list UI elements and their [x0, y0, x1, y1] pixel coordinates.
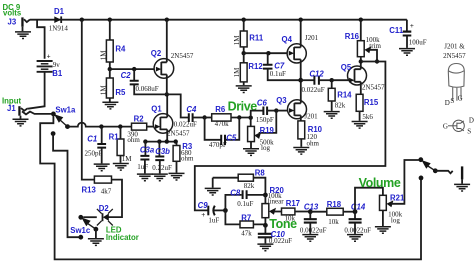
svg-text:R14: R14 [337, 91, 352, 100]
capacitor C7 [263, 53, 301, 80]
capacitor C11 [403, 32, 412, 48]
svg-text:1N914: 1N914 [49, 24, 69, 32]
svg-text:10k: 10k [285, 215, 296, 223]
ground C13 [302, 235, 318, 242]
ground J1 [13, 119, 29, 126]
battery B1 [37, 61, 53, 72]
resistor R17 [282, 208, 311, 215]
ground C3b [152, 174, 168, 181]
node R1 junction [118, 124, 122, 128]
ground C11 [399, 49, 415, 56]
svg-text:470k: 470k [215, 120, 230, 128]
svg-text:1M: 1M [233, 67, 241, 78]
resistor R3 [173, 146, 180, 173]
svg-text:C3a: C3a [140, 145, 155, 154]
svg-text:R17: R17 [286, 199, 300, 208]
svg-text:0.022uF: 0.022uF [269, 237, 292, 245]
resistor R12 [240, 53, 247, 85]
wire C9 node to R7 [225, 210, 240, 224]
capacitor C13 [304, 212, 317, 234]
svg-text:D1: D1 [54, 7, 65, 16]
svg-text:47k: 47k [241, 230, 252, 238]
svg-text:1uF: 1uF [137, 163, 148, 171]
wire Sw1b to output jack [435, 171, 452, 174]
svg-text:D: D [445, 99, 450, 107]
wire battery feed from rail [37, 20, 45, 59]
svg-text:Q2: Q2 [151, 49, 162, 58]
wire Q1 drain to C4 [167, 94, 189, 117]
capacitor C3b [155, 142, 164, 174]
svg-text:C14: C14 [351, 203, 366, 212]
svg-text:R18: R18 [327, 200, 342, 209]
node C6 Q3gate junction [274, 108, 278, 112]
ground R14 [324, 112, 340, 119]
capacitor C6 [251, 107, 277, 118]
node Q1 gate / C1 junction [99, 124, 103, 128]
trimpot R16 100k [357, 20, 377, 62]
node Q4 source / C12 junction [298, 78, 303, 83]
svg-text:+: + [47, 52, 51, 60]
node C4 R6 junction [202, 115, 206, 119]
svg-text:log: log [391, 216, 400, 224]
capacitor C14 [349, 212, 362, 234]
node C2 junction [132, 67, 136, 71]
svg-text:1uF: 1uF [208, 217, 219, 225]
wire battery minus to input jack [28, 72, 45, 109]
transistor Q5 2N5457 [348, 62, 367, 95]
svg-text:470pF: 470pF [209, 141, 227, 149]
switch Sw1c [78, 215, 98, 238]
svg-text:+: + [410, 22, 414, 30]
svg-text:+: + [201, 211, 205, 219]
node R7 R20 C10 junction [263, 223, 268, 228]
svg-text:5k6: 5k6 [362, 113, 373, 121]
svg-text:R1: R1 [109, 132, 120, 141]
capacitor C1 [97, 127, 106, 164]
LED D2 [83, 209, 113, 226]
svg-text:C9: C9 [198, 201, 209, 210]
svg-text:R15: R15 [364, 98, 379, 107]
wire R16 wiper to tone stack feed [195, 62, 386, 211]
wire R2 to Q1 gate [147, 126, 155, 128]
svg-text:0.022uF: 0.022uF [302, 86, 325, 94]
ground C3a [137, 174, 153, 181]
capacitor C2 [130, 69, 167, 94]
svg-text:R16: R16 [345, 32, 360, 41]
node C14 junction [353, 209, 358, 214]
svg-text:R5: R5 [115, 88, 126, 97]
svg-text:C4: C4 [186, 105, 197, 114]
node Drive pot top junction [249, 116, 253, 120]
resistor R18 [310, 208, 355, 215]
svg-text:J1: J1 [7, 104, 16, 113]
resistor R11 [240, 20, 247, 54]
svg-text:R12: R12 [248, 62, 263, 71]
resistor R5 [106, 69, 113, 102]
ground R10 [293, 148, 309, 155]
pinout symbol JFET [448, 120, 464, 131]
svg-text:J201: J201 [305, 34, 319, 42]
wire LED feed from rail [82, 20, 95, 180]
node rail junction dots [80, 18, 363, 22]
wire Q5 gate [332, 79, 350, 81]
node R16 bottom / Q5 drain [359, 59, 363, 63]
wire C9 node to C8 [225, 195, 241, 211]
svg-text:250pF: 250pF [85, 150, 103, 158]
svg-text:R13: R13 [82, 185, 97, 194]
ground R5 [102, 102, 118, 109]
wire +9V top rail [30, 19, 407, 21]
svg-text:1M: 1M [233, 35, 241, 46]
jack J1 input [18, 106, 51, 118]
svg-text:2N5457: 2N5457 [167, 130, 190, 138]
svg-text:J201 &: J201 & [444, 43, 465, 51]
svg-text:G: G [458, 95, 463, 103]
node C12 Q5gate junction [330, 78, 334, 82]
diode D1 [54, 16, 61, 23]
svg-text:linear: linear [268, 197, 285, 205]
ground R8 [205, 188, 221, 195]
wire Q1 source bus [145, 142, 176, 146]
svg-text:2N5457: 2N5457 [171, 52, 194, 60]
svg-text:9v: 9v [53, 61, 61, 69]
resistor R7 [240, 221, 265, 228]
potentiometer R21 Volume 100k [380, 160, 419, 226]
svg-text:C5: C5 [226, 134, 237, 143]
svg-text:R21: R21 [390, 194, 405, 203]
wire Sw1a throw2 to Sw1c contact [53, 134, 81, 238]
TO-92 package J201 2N5457 [448, 64, 464, 101]
resistor R1 [117, 127, 124, 163]
svg-text:0.068uF: 0.068uF [136, 85, 159, 93]
svg-text:1M: 1M [100, 85, 108, 96]
svg-text:R4: R4 [115, 44, 126, 53]
node R11 R12 junction [242, 51, 246, 55]
svg-text:1M: 1M [100, 50, 108, 61]
svg-text:0.22uF: 0.22uF [152, 164, 172, 172]
ground R15 [352, 122, 368, 129]
ground C1 [94, 164, 110, 171]
svg-text:0.0022uF: 0.0022uF [344, 226, 371, 234]
node Q1 drain junction [165, 92, 169, 96]
wire Q4 gate [244, 52, 290, 54]
svg-text:D2: D2 [99, 204, 110, 213]
transistor Q2 2N5457 [154, 20, 174, 95]
svg-text:Q5: Q5 [341, 63, 352, 72]
capacitor C5 [205, 118, 240, 146]
svg-text:S: S [450, 97, 454, 105]
svg-text:1M: 1M [122, 155, 133, 163]
svg-text:log: log [261, 144, 270, 152]
ground J2 [454, 184, 470, 191]
capacitor C9 1uF [208, 206, 225, 216]
svg-text:C11: C11 [389, 26, 404, 35]
svg-text:2N5457: 2N5457 [443, 52, 466, 60]
wire Q3 gate [276, 110, 289, 112]
capacitor C10 [258, 225, 272, 243]
svg-text:Indicator: Indicator [106, 233, 139, 242]
svg-text:C8: C8 [230, 188, 241, 197]
node R4 R5 junction [108, 67, 112, 71]
svg-text:Sw1c: Sw1c [70, 226, 91, 235]
svg-text:R8: R8 [255, 168, 266, 177]
ground R19 [243, 149, 259, 156]
node R6 right junction [237, 115, 241, 119]
ground R1 [113, 164, 129, 171]
svg-text:Q3: Q3 [276, 96, 287, 105]
svg-text:C2: C2 [121, 71, 132, 80]
svg-text:C6: C6 [257, 98, 268, 107]
svg-text:100uF: 100uF [409, 39, 427, 47]
node C9 out junction [223, 208, 228, 213]
ground C14 [347, 235, 363, 242]
resistor R6 [205, 114, 251, 121]
svg-text:82k: 82k [244, 182, 255, 190]
svg-text:R11: R11 [249, 34, 264, 43]
capacitor C3a [140, 142, 149, 174]
svg-text:J3: J3 [8, 17, 17, 26]
svg-text:C3b: C3b [155, 147, 170, 156]
svg-text:0.022uF: 0.022uF [174, 120, 197, 128]
svg-text:C1: C1 [87, 134, 97, 143]
wire bypass: Sw1a pole to bottom rail to Sw1b contact [40, 115, 421, 260]
wire C14 node to R21 top [355, 188, 383, 212]
potentiometer R19 Drive 500k [248, 111, 277, 149]
svg-text:B1: B1 [52, 69, 63, 78]
ground C10 [257, 244, 273, 251]
svg-text:Q4: Q4 [282, 35, 293, 44]
potentiometer R20 Tone 100k [262, 195, 282, 225]
svg-text:Sw1a: Sw1a [55, 106, 76, 115]
resistor R2 [132, 123, 147, 130]
jack J3 DC power [21, 17, 30, 31]
svg-text:S: S [467, 128, 471, 136]
resistor R15 [356, 94, 363, 121]
jack J2 output [461, 166, 463, 183]
ground R3 [169, 173, 185, 180]
switch Sw1a [51, 112, 70, 137]
resistor R14 [328, 80, 335, 111]
label D S G pins [445, 95, 463, 107]
svg-text:ohm: ohm [127, 136, 140, 144]
node Sw1b lower contact [419, 176, 424, 181]
node R16 wiper junction [375, 59, 379, 63]
resistor R4 [106, 20, 113, 69]
node source bus dots [143, 139, 178, 143]
ground R12 [236, 86, 252, 93]
node Sw1c lower contact [78, 235, 83, 240]
switch Sw1b [418, 157, 437, 173]
wire Q2 gate [110, 68, 155, 70]
svg-text:J201: J201 [304, 113, 318, 121]
svg-text:0.1uF: 0.1uF [237, 200, 253, 208]
transistor Q3 J201 [288, 80, 307, 121]
node C7 junction [266, 51, 270, 55]
svg-text:0.1uF: 0.1uF [270, 70, 286, 78]
svg-text:82k: 82k [335, 102, 346, 110]
svg-text:C12: C12 [309, 69, 324, 78]
svg-text:10k: 10k [328, 218, 339, 226]
svg-text:ohm: ohm [307, 140, 320, 148]
svg-text:G: G [443, 123, 448, 131]
transistor Q4 J201 [287, 20, 306, 80]
svg-text:ohm: ohm [181, 154, 194, 162]
svg-text:trim: trim [369, 42, 381, 50]
svg-text:150pF: 150pF [256, 116, 274, 124]
svg-text:C13: C13 [304, 203, 319, 212]
resistor R10 [298, 121, 305, 147]
capacitor C8 [243, 190, 266, 199]
svg-text:R6: R6 [215, 105, 226, 114]
node C8 R8 R20 junction [263, 193, 268, 198]
svg-text:2N5457: 2N5457 [362, 83, 385, 91]
svg-text:4k7: 4k7 [101, 188, 112, 196]
svg-text:D: D [469, 116, 474, 124]
ground J3 [15, 32, 31, 39]
wire rail to C11 [406, 20, 408, 31]
resistor R13 [94, 176, 111, 183]
svg-text:R7: R7 [241, 213, 251, 222]
capacitor C4 [189, 113, 205, 122]
svg-text:R19: R19 [260, 126, 275, 135]
resistor R8 [213, 174, 266, 195]
capacitor C12 [301, 76, 332, 85]
node C13 junction [308, 209, 313, 214]
wire Sw1a throw to Q1 gate node (with hop) [68, 123, 132, 127]
transistor Q1 2N5457 [153, 94, 173, 141]
svg-text:Volume: Volume [359, 176, 401, 190]
svg-text:Q1: Q1 [151, 105, 162, 114]
ground R21 [375, 227, 391, 234]
wire R13 to D2 [108, 180, 122, 218]
svg-text:R2: R2 [134, 114, 145, 123]
svg-text:0.0022uF: 0.0022uF [300, 226, 327, 234]
ground Sw1c [88, 239, 104, 246]
